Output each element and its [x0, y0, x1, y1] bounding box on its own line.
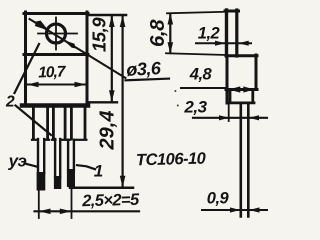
- label 1 leader: [77, 165, 95, 169]
- arrowhead on hole lower-right: [64, 40, 77, 49]
- svg-text:6,8: 6,8: [146, 19, 169, 47]
- side view lead left edge: [240, 103, 243, 217]
- extension line top of body: [88, 14, 126, 17]
- 2,3 extension line: [228, 104, 230, 121]
- lead 3 tip: [67, 169, 75, 187]
- side view: 6,8 extension line top: [167, 12, 225, 14]
- label 2 leader down to lead 2: [16, 106, 52, 136]
- dimension line 15,9: [109, 15, 115, 102]
- side view lower shelf: [229, 90, 254, 103]
- lead 3 wide tab: [68, 108, 86, 140]
- svg-text:15,9: 15,9: [89, 17, 110, 52]
- svg-text:ТС106-10: ТС106-10: [136, 150, 207, 170]
- extension line bottom of leads: [70, 187, 133, 190]
- lead pitch extension line left: [38, 191, 40, 219]
- side view mounting tab: [225, 10, 239, 56]
- extension line bottom of body: [88, 101, 117, 103]
- dimension line 6,8: [168, 13, 174, 54]
- svg-text:2: 2: [5, 93, 15, 110]
- dimension line 1,2: [196, 41, 251, 46]
- svg-text:0,9: 0,9: [207, 190, 230, 208]
- front view body outline: [22, 12, 88, 106]
- mounting hole: [47, 24, 66, 43]
- svg-text:уэ: уэ: [8, 152, 27, 171]
- dimension line 0,9: [202, 207, 268, 212]
- svg-text:2,3: 2,3: [183, 98, 207, 117]
- dimension line 2,3: [193, 115, 268, 120]
- leader line for dia 3,6: [30, 19, 126, 78]
- scan speck: [174, 90, 176, 92]
- label 2 leader up into tab: [15, 44, 40, 93]
- side view: 6,8 extension line bottom: [166, 53, 226, 55]
- svg-text:29,4: 29,4: [97, 111, 119, 151]
- side view body: [226, 55, 257, 103]
- svg-text:10,7: 10,7: [38, 63, 67, 81]
- dimension line 29,4: [120, 15, 126, 187]
- underline of dia 3,6: [126, 79, 170, 81]
- lead 3 narrow pin: [68, 140, 74, 170]
- dimension line 10,7: [27, 82, 86, 88]
- dimension line 2,5x2=5: [35, 209, 140, 215]
- arrowhead on hole upper-left: [35, 21, 49, 31]
- svg-text:2,5×2=5: 2,5×2=5: [81, 191, 140, 211]
- dimension line 4,8: [181, 86, 254, 92]
- scan speck: [177, 105, 179, 107]
- lead 1 tip: [37, 172, 46, 191]
- lead 2 tip: [54, 176, 61, 189]
- lead pitch extension line right: [71, 188, 73, 218]
- side view lead right edge: [247, 103, 250, 217]
- svg-text:4,8: 4,8: [189, 66, 213, 84]
- lead 2 wide tab: [52, 108, 67, 140]
- svg-text:1: 1: [94, 162, 103, 181]
- lead 1 narrow pin: [38, 139, 44, 173]
- hole crosshair: [38, 18, 77, 50]
- lead 1 wide tab: [32, 108, 49, 140]
- label UE leader: [27, 164, 37, 167]
- svg-text:1,2: 1,2: [198, 25, 220, 43]
- lead 2 narrow pin: [55, 139, 60, 177]
- svg-text:ø3,6: ø3,6: [126, 58, 163, 80]
